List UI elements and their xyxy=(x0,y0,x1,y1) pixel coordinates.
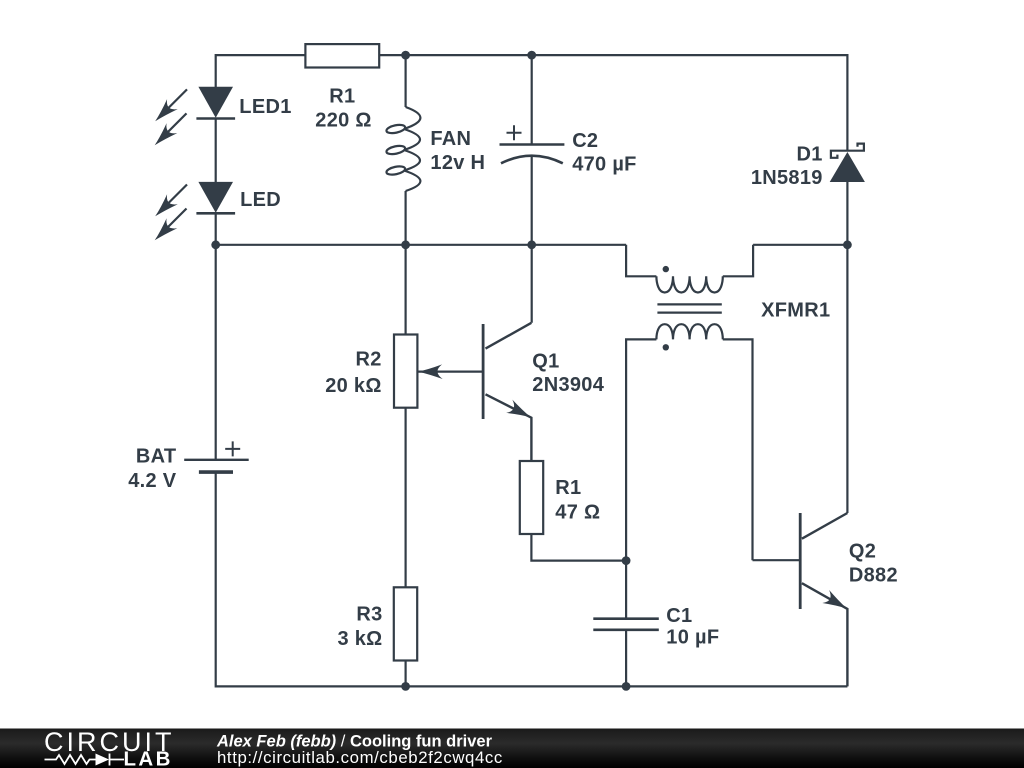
LED LED xyxy=(150,182,235,246)
footer bar xyxy=(0,727,1024,768)
svg-text:4.2 V: 4.2 V xyxy=(128,470,177,492)
svg-text:R1: R1 xyxy=(555,477,581,499)
wire xyxy=(753,244,847,246)
logo resistor zigzag xyxy=(45,755,96,764)
logo diode xyxy=(96,754,110,766)
svg-text:D1: D1 xyxy=(797,144,823,166)
battery BAT xyxy=(184,441,249,472)
wire xyxy=(531,534,626,561)
wire xyxy=(405,661,407,687)
node R1-FAN xyxy=(401,51,410,60)
wire xyxy=(405,55,407,107)
diode D1 1N5819 xyxy=(830,144,865,182)
svg-text:http://circuitlab.com/cbeb2f2c: http://circuitlab.com/cbeb2f2cwq4cc xyxy=(217,748,503,767)
node C1 bottom xyxy=(622,682,631,691)
svg-text:C2: C2 xyxy=(572,130,598,152)
svg-text:220 Ω: 220 Ω xyxy=(315,109,371,131)
wire xyxy=(531,245,533,323)
wire xyxy=(216,472,848,686)
svg-text:R1: R1 xyxy=(329,86,355,108)
svg-text:LAB: LAB xyxy=(124,748,173,768)
wire xyxy=(405,245,407,335)
wire xyxy=(846,182,848,245)
node LED rail xyxy=(211,240,220,249)
node R3 bottom xyxy=(401,682,410,691)
wire xyxy=(625,561,627,619)
node FAN bottom xyxy=(401,240,410,249)
transistor Q1 2N3904 xyxy=(483,323,534,461)
node C2 bottom xyxy=(527,240,536,249)
svg-text:3 kΩ: 3 kΩ xyxy=(337,628,382,650)
inductor FAN xyxy=(386,107,421,191)
node junctions xyxy=(211,51,852,691)
node D1-Q2 xyxy=(843,240,852,249)
svg-text:470 µF: 470 µF xyxy=(572,153,636,175)
svg-text:20 kΩ: 20 kΩ xyxy=(325,375,381,397)
svg-text:Q2: Q2 xyxy=(849,540,876,562)
wire xyxy=(625,630,627,687)
node R1-XFMR xyxy=(622,556,631,565)
svg-text:2N3904: 2N3904 xyxy=(532,374,604,396)
svg-text:Q1: Q1 xyxy=(532,350,559,372)
svg-text:1N5819: 1N5819 xyxy=(751,167,823,189)
wire xyxy=(216,55,306,87)
node C2 top xyxy=(527,51,536,60)
wire xyxy=(531,55,533,144)
capacitor C2 xyxy=(500,125,565,163)
resistor R1 220 xyxy=(305,44,379,67)
svg-text:D882: D882 xyxy=(849,565,898,587)
wire xyxy=(216,244,626,246)
capacitor C1 xyxy=(593,619,659,630)
svg-text:XFMR1: XFMR1 xyxy=(761,300,830,322)
svg-text:LED1: LED1 xyxy=(239,96,291,118)
svg-text:LED: LED xyxy=(240,189,281,211)
wire xyxy=(405,408,407,588)
svg-text:BAT: BAT xyxy=(136,446,177,468)
resistor R1 47 xyxy=(520,461,543,534)
wire xyxy=(379,55,847,151)
wire xyxy=(215,213,217,459)
svg-text:10 µF: 10 µF xyxy=(666,626,719,648)
svg-text:12v H: 12v H xyxy=(430,152,485,174)
wire xyxy=(215,119,217,183)
svg-text:47 Ω: 47 Ω xyxy=(555,502,600,524)
wire xyxy=(531,156,533,245)
transformer XFMR1 xyxy=(626,245,753,561)
potentiometer R2 xyxy=(394,335,483,408)
wire xyxy=(405,191,407,245)
resistor R3 xyxy=(394,587,417,660)
svg-text:C1: C1 xyxy=(666,605,692,627)
svg-text:FAN: FAN xyxy=(430,128,471,150)
transistor Q2 D882 xyxy=(753,245,851,687)
svg-text:R2: R2 xyxy=(356,349,382,371)
svg-text:R3: R3 xyxy=(356,604,382,626)
LED LED1 xyxy=(150,87,235,151)
